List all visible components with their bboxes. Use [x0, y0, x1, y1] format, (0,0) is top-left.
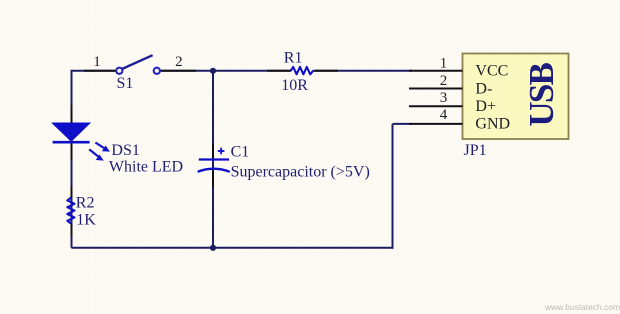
S1 pin 1 line: [84, 70, 116, 72]
connector JP1 (USB): [409, 54, 569, 159]
junction at node A (top of C1): [210, 68, 216, 74]
svg-text:www.buslatech.com: www.buslatech.com: [544, 302, 620, 312]
C1 pin top: [212, 144, 214, 159]
S1 pin 2 line: [160, 70, 196, 72]
svg-text:3: 3: [440, 90, 448, 106]
wire: stub to JP1 pin 4: [393, 123, 413, 125]
svg-text:C1: C1: [231, 144, 250, 161]
wire: R1 to JP1 pin 1: [314, 70, 412, 72]
S1 contact circle right: [154, 68, 160, 74]
JP1 pin 2 line (D-): [409, 88, 463, 90]
DS1 cathode bar: [53, 141, 90, 144]
svg-text:D+: D+: [475, 98, 496, 115]
wire: top-left horizontal to S1 pin 1: [71, 70, 118, 72]
R2 zigzag body: [67, 198, 74, 224]
svg-text:2: 2: [440, 73, 448, 89]
switch S1: [84, 54, 196, 92]
svg-text:R2: R2: [76, 194, 95, 211]
svg-text:VCC: VCC: [475, 63, 508, 80]
JP1 pin 3 line (D+): [409, 105, 463, 107]
svg-text:GND: GND: [475, 116, 510, 133]
capacitor C1: [198, 144, 370, 188]
DS1 triangle: [53, 123, 90, 141]
LED DS1: [53, 105, 184, 175]
wire: bottom horizontal: [72, 247, 393, 249]
svg-text:1: 1: [93, 54, 101, 70]
svg-text:D-: D-: [475, 80, 492, 97]
JP1 pin 1 line (VCC): [409, 70, 463, 72]
junction at bottom of C1: [210, 245, 216, 251]
svg-text:JP1: JP1: [464, 142, 487, 159]
wire: right vertical to GND pin: [392, 124, 394, 249]
R1 pin left: [267, 70, 291, 72]
svg-text:4: 4: [440, 107, 448, 123]
wire: junction A to R1: [213, 70, 291, 72]
svg-text:USB: USB: [522, 63, 561, 127]
C1 pin bottom: [212, 171, 214, 189]
R1 pin right: [314, 70, 338, 72]
S1 blade: [122, 55, 153, 69]
svg-text:Supercapacitor (>5V): Supercapacitor (>5V): [231, 164, 370, 181]
DS1 emission arrow 1: [95, 143, 110, 152]
svg-text:S1: S1: [117, 75, 134, 92]
JP1 body: [463, 54, 569, 140]
R2 pin top: [71, 186, 73, 198]
resistor R1: [267, 49, 338, 94]
wire: center vertical through C1: [212, 71, 214, 248]
resistor R2: [67, 186, 96, 236]
svg-text:DS1: DS1: [111, 142, 139, 159]
JP1 pin 4 line (GND): [409, 123, 463, 125]
C1 bottom plate (curved): [198, 169, 230, 172]
wire: left vertical (LED/R2 branch): [71, 71, 73, 248]
C1 top plate: [199, 158, 229, 160]
svg-text:R1: R1: [284, 49, 303, 66]
R2 pin bottom: [71, 224, 73, 236]
svg-text:White LED: White LED: [109, 158, 183, 175]
svg-text:1K: 1K: [76, 212, 96, 229]
DS1 cathode pin: [71, 142, 73, 160]
svg-text:10R: 10R: [281, 77, 308, 94]
svg-text:1: 1: [440, 56, 448, 72]
wire: S1 pin 2 to junction A: [160, 70, 214, 72]
S1 contact circle left: [116, 68, 122, 74]
DS1 anode pin: [71, 105, 73, 123]
C1 plus sign: [218, 148, 225, 155]
svg-text:2: 2: [175, 54, 183, 70]
DS1 emission arrow 2: [89, 149, 104, 160]
R1 zigzag body: [291, 67, 314, 74]
